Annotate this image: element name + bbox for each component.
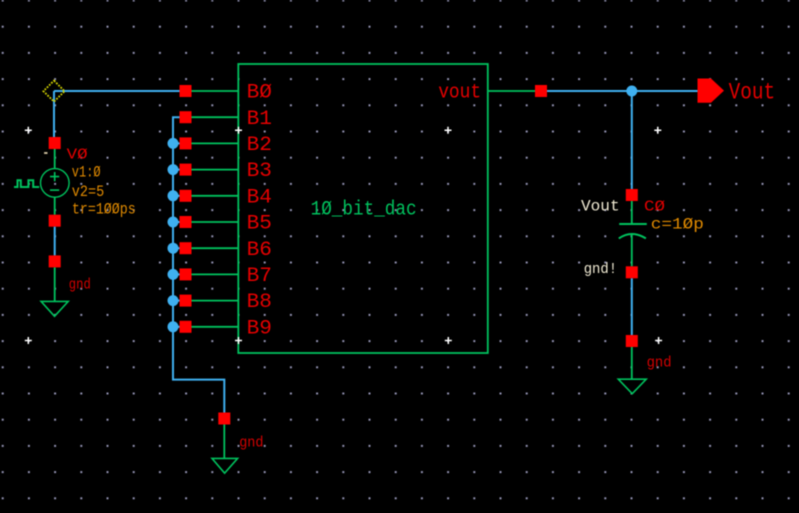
svg-text:B2: B2 — [247, 134, 272, 157]
origin marker mid bottom — [445, 337, 452, 344]
cap lead bottom — [631, 233, 633, 266]
DAC instance 10_bit_dac — [238, 64, 487, 353]
wire C0 to ground — [631, 278, 633, 335]
svg-text:BØ: BØ — [247, 82, 272, 105]
wire B0 rail from diamond to B0 pin — [54, 91, 180, 137]
junction dot B8 — [168, 295, 179, 306]
svg-text:1Ø_bit_dac: 1Ø_bit_dac — [311, 199, 417, 222]
junction dot B3 — [168, 164, 179, 175]
svg-text:gnd: gnd — [69, 277, 91, 294]
pin square B8 — [180, 295, 192, 307]
pin square B5 — [180, 216, 192, 228]
wire stub dot to B4 — [173, 195, 180, 197]
svg-text:tr=1ØØps: tr=1ØØps — [72, 201, 136, 219]
svg-text:vout: vout — [438, 82, 481, 105]
cap bottom plate arc — [619, 234, 646, 238]
svg-text:B1: B1 — [247, 108, 272, 131]
ground symbol gnd ladder bottom — [212, 413, 264, 474]
pin square V0 minus — [49, 215, 61, 227]
node diamond at net junction — [43, 81, 64, 102]
junction dot B9 — [168, 321, 179, 332]
svg-text:B9: B9 — [247, 317, 272, 340]
gnd stub — [631, 347, 633, 379]
svg-text:B8: B8 — [247, 291, 272, 314]
wire stub dot to B3 — [173, 169, 180, 171]
origin marker box-edge bottom — [235, 337, 242, 344]
origin marker box-edge top — [235, 127, 242, 134]
wire ladder B1 vertical bus — [173, 117, 224, 412]
wire stub dot to B2 — [173, 142, 180, 144]
pin square C0 top — [626, 189, 638, 201]
pin square B7 — [180, 268, 192, 280]
gnd triangle — [212, 458, 238, 473]
wire stub dot to B7 — [173, 273, 180, 275]
output pin Vout — [698, 79, 725, 103]
pin stub B4 — [192, 195, 239, 197]
pin stub B6 — [192, 247, 239, 249]
origin marker mid top — [445, 127, 452, 134]
pin square vout — [535, 85, 547, 97]
plus mark — [50, 172, 59, 181]
svg-text:VØ: VØ — [67, 147, 88, 164]
svg-text:gnd!: gnd! — [584, 261, 618, 278]
dac body rectangle — [238, 64, 487, 353]
gnd stub — [223, 425, 225, 459]
origin marker right top — [654, 127, 661, 134]
pin stub B2 — [192, 142, 239, 144]
pin square gnd — [218, 413, 230, 425]
gnd stub — [54, 267, 56, 301]
svg-text:Vout: Vout — [581, 197, 620, 215]
origin marker left bottom — [25, 337, 32, 344]
junction dot B5 — [168, 217, 179, 228]
junction dot B7 — [168, 269, 179, 280]
pulse waveform glyph — [14, 180, 39, 187]
wire stub dot to B9 — [173, 326, 180, 328]
pin stub B0 — [192, 90, 239, 92]
ground symbol gnd left — [41, 255, 91, 316]
cap lead top — [631, 201, 633, 224]
svg-text:B4: B4 — [247, 186, 272, 209]
pin square B4 — [180, 190, 192, 202]
pin square B6 — [180, 242, 192, 254]
pin stub B3 — [192, 169, 239, 171]
cap top plate — [619, 223, 647, 225]
junction dot B4 — [168, 190, 179, 201]
svg-text:B6: B6 — [247, 239, 272, 262]
pin square gnd — [49, 255, 61, 267]
wire vout down to C0 — [631, 91, 633, 189]
svg-text:gnd: gnd — [647, 355, 672, 372]
pin square B2 — [180, 137, 192, 149]
pin square B3 — [180, 164, 192, 176]
pin square B1 — [180, 111, 192, 123]
voltage source V0 — [14, 137, 136, 227]
origin marker left top — [25, 127, 32, 134]
svg-text:c=1Øp: c=1Øp — [651, 215, 704, 233]
wire stub dot to B8 — [173, 300, 180, 302]
svg-text:B3: B3 — [247, 160, 272, 183]
svg-text:gnd: gnd — [239, 435, 263, 452]
pin square V0 plus — [49, 137, 61, 149]
svg-text:CØ: CØ — [644, 198, 665, 215]
wire vout net — [547, 90, 698, 92]
pin stub vout — [488, 90, 535, 92]
gnd triangle — [618, 379, 646, 394]
junction dot B2 — [168, 138, 179, 149]
pin stub B8 — [192, 300, 239, 302]
pin square gnd — [626, 335, 638, 347]
wire V0 minus to ground — [54, 227, 56, 256]
svg-text:v2=5: v2=5 — [72, 183, 104, 201]
pin stub B1 — [192, 116, 239, 118]
wire stub dot to B5 — [173, 221, 180, 223]
junction dot B6 — [168, 243, 179, 254]
svg-text:B7: B7 — [247, 265, 272, 288]
pin stub B5 — [192, 221, 239, 223]
svg-text:B5: B5 — [247, 213, 272, 236]
origin tick V0 — [44, 152, 47, 154]
pin square B9 — [180, 321, 192, 333]
pin square B0 — [180, 85, 192, 97]
wire stub dot to B6 — [173, 247, 180, 249]
junction dot vout — [626, 86, 637, 97]
wire stub V0 plus pin to circle — [54, 149, 56, 215]
V0 circle body — [41, 169, 70, 198]
origin marker right bottom — [655, 337, 662, 344]
gnd triangle — [41, 301, 68, 316]
pin square C0 bottom — [626, 266, 638, 278]
svg-text:Vout: Vout — [729, 80, 776, 106]
capacitor C0 — [581, 189, 704, 278]
svg-text:v1:Ø: v1:Ø — [72, 163, 101, 181]
ground symbol gnd right — [618, 335, 671, 394]
pin stub B7 — [192, 273, 239, 275]
pin stub B9 — [192, 326, 239, 328]
minus mark — [50, 189, 59, 191]
